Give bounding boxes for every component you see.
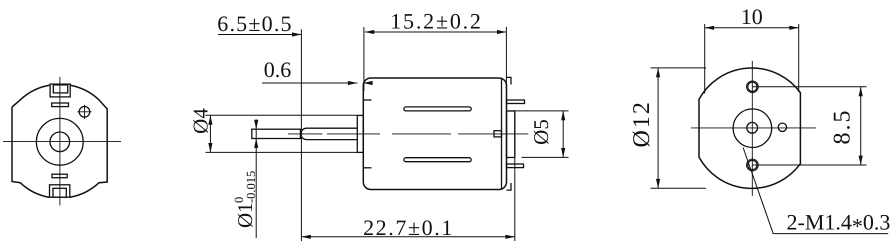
rear view horizontal centerline (691, 127, 816, 129)
arrow 22.7 right (505, 235, 514, 239)
dim 22.7 line (301, 236, 514, 238)
arrow Ø1 top (outside, pointing down) (254, 120, 258, 129)
side view terminal bottom (507, 164, 524, 168)
ext line rear boss tip (514, 111, 516, 241)
front bottom brush bar (52, 174, 67, 178)
side view cap ear top (507, 77, 512, 84)
8.5 ext line top (752, 86, 866, 88)
rear screw hole bottom M1.4 (748, 160, 757, 169)
side view shaft flat capsule section (301, 128, 358, 139)
arrow Ø1 bottom (outside, pointing up) (254, 139, 258, 148)
ext line can rear (505, 27, 507, 91)
ext line 10 left (704, 24, 706, 94)
arrow 0.6 left (outside, pointing right) (348, 81, 357, 85)
side view vent slot bottom (404, 158, 471, 162)
svg-text:Ø5: Ø5 (529, 119, 553, 145)
front shaft hole circle (50, 132, 70, 152)
front top brush bar (52, 103, 69, 107)
side view end cap seam line (501, 79, 503, 189)
arrowheads (208, 26, 863, 239)
Ø12 ext line bottom (651, 187, 707, 189)
dim 8.5 vertical line (860, 87, 862, 165)
Ø12 ext line top (651, 67, 707, 69)
ext line shared (front bearing tip) (300, 30, 302, 242)
side view can crimp line bottom (363, 167, 371, 169)
svg-text:Ø1: Ø1 (233, 202, 257, 228)
Ø4 ext line bottom (206, 151, 358, 153)
rear view vertical centerline (751, 61, 753, 196)
ext line 10 right (798, 24, 800, 92)
side view terminal top (507, 100, 525, 104)
rear shaft circle (747, 122, 758, 133)
front view vertical centerline (59, 77, 61, 206)
svg-text:2-M1.4*0.3: 2-M1.4*0.3 (787, 210, 891, 239)
arrow 22.7 left (301, 235, 310, 239)
rear screw hole top M1.4 (748, 82, 757, 91)
dim 15.2 line (365, 31, 507, 33)
rear rotor hub circle (733, 109, 772, 148)
svg-text:Ø12: Ø12 (629, 100, 655, 147)
front view outline (motor can, left view) (12, 85, 107, 197)
front bottom terminal tab inner (53, 188, 66, 197)
dim 0.6 tail right (363, 82, 372, 84)
arrow 15.2 right (497, 30, 506, 34)
side view motor can body (363, 78, 506, 190)
front view horizontal centerline (3, 141, 121, 143)
Ø5 ext line top (508, 110, 569, 112)
side view horizontal centerline (288, 133, 528, 135)
svg-text:Ø4: Ø4 (188, 108, 212, 134)
svg-text:22.7±0.1: 22.7±0.1 (363, 215, 454, 240)
svg-text:10: 10 (741, 4, 763, 29)
front screw hole with cross (79, 107, 90, 118)
dim Ø12 vertical line (657, 68, 659, 188)
arrow 8.5 top (859, 87, 863, 96)
arrow Ø5 bottom (561, 148, 565, 157)
arrow 10 right (789, 26, 798, 30)
dimension texts (188, 4, 890, 240)
side view front hub (Ø4 x 0.6) (357, 115, 363, 152)
side view vent slot top (404, 107, 471, 111)
side view can crimp line top (363, 99, 371, 101)
front top terminal tab inner (53, 85, 67, 93)
side view rear boss (Ø5) (507, 111, 515, 158)
svg-text:15.2±0.2: 15.2±0.2 (390, 9, 482, 34)
dimension lines (206, 24, 889, 241)
front top terminal tab outer (50, 84, 70, 97)
svg-text:8.5: 8.5 (829, 109, 855, 145)
svg-text:6.5±0.5: 6.5±0.5 (217, 11, 292, 36)
svg-text:0.6: 0.6 (264, 57, 292, 82)
Ø4 ext line top (206, 114, 358, 116)
arrow Ø4 top (208, 115, 212, 124)
rear view outline (end cap, right view) (699, 68, 800, 188)
arrow Ø12 top (656, 68, 660, 77)
arrow Ø12 bottom (656, 179, 660, 188)
dim Ø5 vertical line (562, 111, 564, 157)
text Ø1 with tolerance rotated (232, 171, 258, 228)
side view cap notch square (494, 131, 502, 137)
arrow 6.5 right (292, 32, 301, 36)
dim 6.5 line (218, 34, 302, 36)
front bottom terminal tab outer (50, 185, 70, 197)
arrow 0.6 right (outside, pointing left) (363, 81, 372, 85)
side view shaft (Ø1) (252, 129, 301, 138)
ext line can front (363, 27, 365, 91)
svg-text:-0.015: -0.015 (244, 171, 258, 203)
arrow 15.2 left (365, 30, 374, 34)
front bearing boss circle (36, 118, 83, 165)
arrow Ø4 bottom (208, 143, 212, 152)
arrow 10 left (705, 26, 714, 30)
side view cap ear bottom (507, 183, 512, 190)
leader 2-M1.4 (743, 148, 888, 234)
dim 0.6 line left part (262, 82, 357, 84)
dim 10 line (705, 27, 799, 29)
arrow Ø5 top (561, 111, 565, 120)
Ø5 ext line bottom (522, 156, 569, 158)
dim Ø4 vertical line (209, 115, 211, 152)
8.5 ext line bottom (752, 164, 866, 166)
rear vent hole (778, 123, 786, 131)
dim Ø1 vertical line (255, 120, 257, 239)
arrow 8.5 bottom (859, 156, 863, 165)
